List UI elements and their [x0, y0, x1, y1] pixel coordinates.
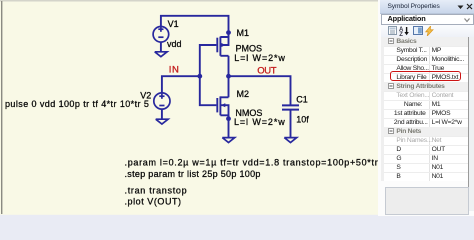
row Text Orientation [381, 91, 469, 100]
wire C1 bottom to ground [290, 111, 292, 138]
row pin G [381, 154, 469, 163]
row pin D [381, 145, 469, 154]
svg-text:L=l W=2*w: L=l W=2*w [234, 117, 286, 127]
svg-text:M2: M2 [237, 89, 250, 99]
schematic background [0, 0, 378, 215]
svg-text:C1: C1 [296, 94, 308, 104]
row pin B [381, 172, 469, 181]
wire V2 top to IN rail corner [162, 76, 200, 92]
row 2nd attribute [381, 118, 469, 127]
scrollbar track [469, 37, 474, 211]
wire gate vertical M1 gate to M2 gate [200, 45, 217, 105]
row Name [381, 100, 469, 109]
icon property pages [413, 26, 423, 35]
svg-text:.plot V(OUT): .plot V(OUT) [125, 197, 182, 207]
red highlight box on Library File row [390, 71, 462, 81]
voltage source V2 [154, 93, 170, 109]
svg-text:vdd: vdd [167, 39, 182, 49]
svg-text:10f: 10f [296, 115, 309, 125]
combo box Application [381, 14, 474, 25]
ground (C1) [284, 138, 296, 143]
ground (V2) [156, 119, 168, 124]
svg-text:.step param tr list 25p 50p 10: .step param tr list 25p 50p 100p [125, 169, 261, 179]
svg-text:IN: IN [169, 65, 180, 76]
wire V2 bottom stub [161, 110, 163, 120]
node IN junction [197, 74, 202, 79]
row Symbol Type [381, 46, 469, 55]
node M2 source junction [226, 116, 231, 121]
icon lightning [425, 26, 434, 36]
svg-text:.param l=0.2µ w=1µ tf=tr vdd=1: .param l=0.2µ w=1µ tf=tr vdd=1.8 transto… [125, 157, 379, 167]
schematic canvas [0, 0, 378, 220]
row 1st attribute [381, 109, 469, 118]
transistor M1 PMOS [217, 37, 228, 56]
wire M2 source down to ground [228, 115, 230, 137]
Symbol Properties panel [378, 0, 474, 216]
scrollbar divider line [468, 37, 469, 211]
svg-text:.tran transtop: .tran transtop [125, 185, 188, 195]
voltage source V1 [153, 27, 169, 43]
svg-text:pulse 0 vdd 100p tr tf 4*tr 10: pulse 0 vdd 100p tr tf 4*tr 10*tr 5 [5, 99, 149, 109]
ground (M2) [222, 138, 234, 143]
wire OUT rail to C1 top [229, 76, 291, 104]
row Pin Names header [381, 136, 469, 145]
node vdd junction at M1 source [226, 30, 231, 35]
capacitor C1 [282, 105, 299, 109]
left window border [1, 1, 2, 214]
top window border [0, 0, 378, 2]
panel title bar [380, 0, 474, 14]
svg-text:M1: M1 [237, 28, 250, 38]
svg-text:PMOS: PMOS [236, 44, 263, 54]
toolbar [381, 25, 474, 38]
description box [385, 187, 469, 215]
node OUT junction [226, 74, 231, 79]
wire V1 bottom stub to ground [160, 42, 162, 52]
M2 source arrow [221, 103, 225, 107]
row Description [381, 55, 469, 64]
wire OUT node down to M2 drain [228, 76, 230, 97]
row Library File [381, 73, 469, 82]
svg-text:L=l W=2*w: L=l W=2*w [234, 53, 286, 63]
svg-text:Z: Z [399, 32, 403, 36]
icon sort A-Z [399, 26, 409, 36]
ground (V1) [155, 52, 167, 57]
row category Pin Nets [381, 127, 469, 136]
svg-text:OUT: OUT [257, 65, 276, 76]
row Allow Short [381, 64, 469, 73]
row category String Attributes [381, 82, 469, 91]
wire vdd rail: V1 top, across, down to M1 source [161, 16, 229, 37]
transistor M2 NMOS [217, 96, 228, 115]
row category Basics [381, 37, 469, 46]
icon categorized [388, 26, 397, 35]
M1 source arrow [221, 43, 225, 47]
indent column [381, 37, 384, 181]
divider name/value [429, 37, 430, 181]
row pin S [381, 163, 469, 172]
property grid [381, 37, 469, 181]
svg-text:V1: V1 [168, 19, 179, 29]
wire M1 drain down to OUT node [228, 56, 230, 77]
